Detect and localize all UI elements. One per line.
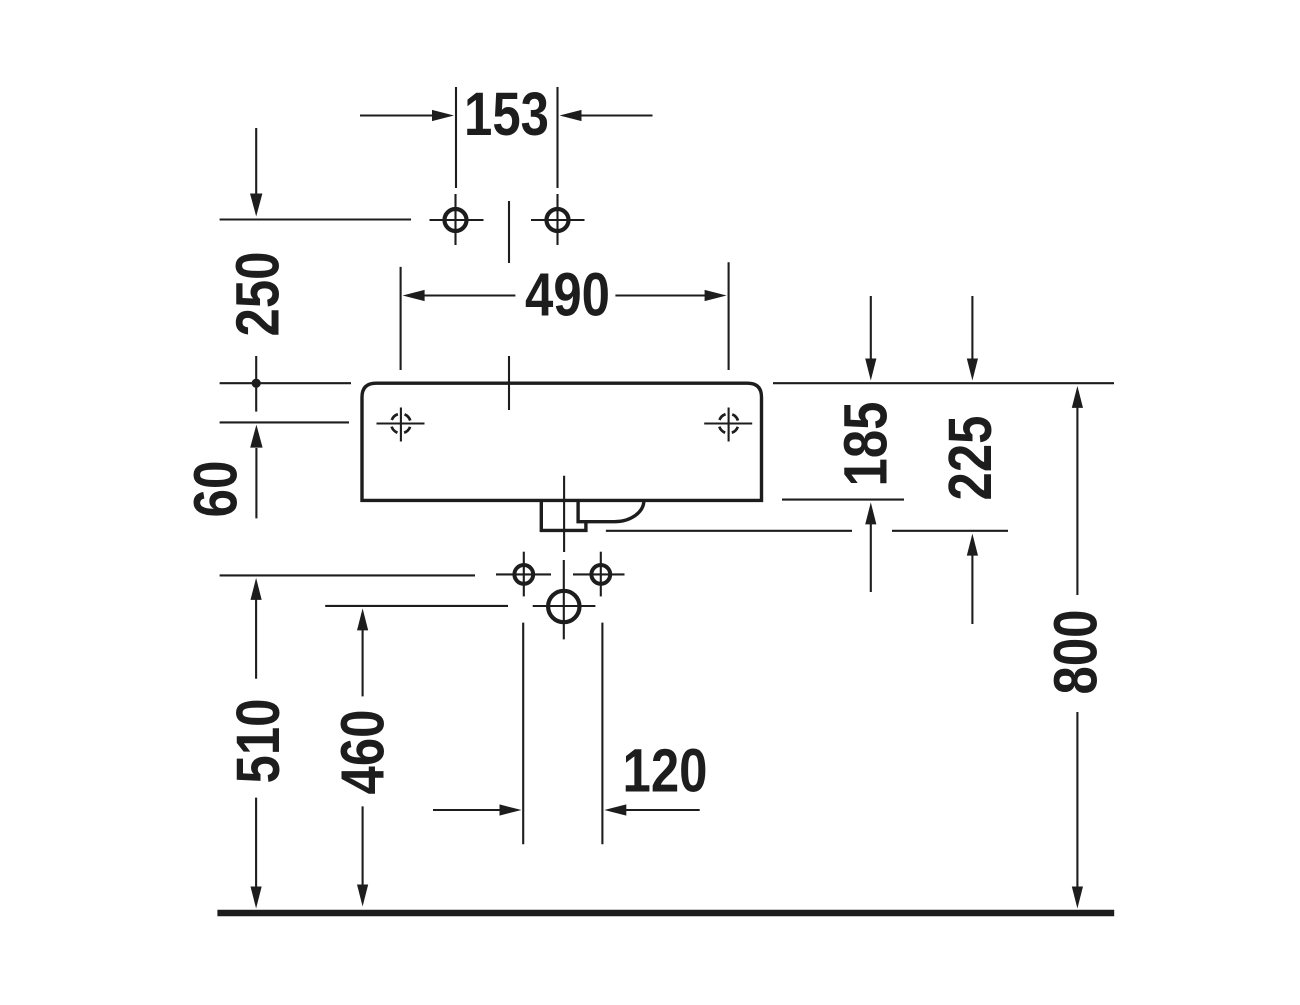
dimension 185 lower arrow [865, 502, 876, 524]
drain bottom level extension line to right (segment 2) [892, 530, 1008, 532]
drain pipe level line to left (460 ref) [325, 605, 508, 607]
supply hole left circle [514, 565, 533, 584]
mounting hole left crosshair [377, 422, 425, 424]
dimension 153 extension line right [556, 87, 558, 188]
dimension 153 arrow right [578, 114, 653, 116]
faucet hole reference line to left [220, 218, 411, 220]
washbasin body outline [362, 383, 762, 500]
mounting hole level extension line to left [220, 421, 349, 423]
mounting hole right (dashed) [719, 414, 739, 434]
dimension 490 arrow left [403, 290, 425, 301]
drain outlet stub [541, 500, 586, 530]
basin bottom level extension line to right [782, 499, 904, 501]
dimension 460 upper arrow [357, 608, 368, 630]
dimension 120 arrow right [604, 804, 626, 815]
faucet hole right circle [547, 209, 569, 231]
dimension 120 arrow left [433, 809, 502, 811]
svg-text:800: 800 [1041, 610, 1109, 695]
supply hole left crosshair [496, 573, 551, 575]
svg-text:490: 490 [525, 261, 610, 329]
mounting hole right crosshair [704, 422, 752, 424]
drain bottom level extension line to right (segment 1) [606, 530, 852, 532]
faucet hole left crosshair [430, 219, 484, 221]
dimension 60 up arrow [250, 425, 262, 448]
svg-text:120: 120 [623, 737, 708, 805]
svg-text:185: 185 [831, 402, 899, 487]
dimension 800 lower shaft and arrow [1076, 712, 1078, 888]
supply hole level line to left (510 ref) [220, 574, 475, 576]
dimension 153 arrow left [360, 114, 435, 116]
dimension 250 lower shaft with dot terminator [255, 356, 257, 412]
svg-text:510: 510 [224, 699, 292, 784]
drain trap profile with curve [578, 500, 644, 521]
svg-text:250: 250 [223, 252, 291, 337]
centerline between faucet holes [508, 201, 510, 263]
drain pipe circle crosshair [533, 605, 596, 607]
basin vertical centerline [508, 356, 510, 410]
dimension 490 extension line right [728, 262, 730, 370]
dimension 800 upper arrow [1072, 386, 1083, 408]
dimension 225 upper arrow [971, 296, 973, 360]
dimension 120 extension line right [601, 623, 603, 845]
dot terminator at basin top level [252, 379, 261, 388]
down arrow above faucet line (250 dim top) [255, 128, 257, 196]
supply hole right circle [591, 565, 610, 584]
svg-text:460: 460 [329, 710, 397, 795]
dimension 510 lower shaft and arrow [255, 798, 257, 888]
dimension 510 upper arrow [251, 578, 262, 600]
drain pipe circle [548, 591, 579, 622]
faucet hole right crosshair [531, 219, 585, 221]
svg-text:60: 60 [182, 461, 250, 518]
supply hole right crosshair [573, 573, 625, 575]
dimension 225 lower arrow [967, 534, 978, 556]
floor line [217, 910, 1114, 917]
svg-text:225: 225 [936, 416, 1004, 501]
dimension 460 lower shaft and arrow [362, 806, 364, 886]
dimension 490 extension line left [400, 267, 402, 370]
dimension 120 extension line left [522, 623, 524, 845]
basin top level extension line to right [773, 382, 1114, 384]
mounting hole left (dashed) [391, 414, 411, 434]
drain centerline [563, 476, 565, 552]
basin top level extension line to left [220, 382, 351, 384]
svg-text:153: 153 [464, 80, 549, 148]
faucet hole left circle [445, 209, 467, 231]
dimension 490 arrow right [615, 294, 706, 296]
dimension 153 extension line left [455, 87, 457, 188]
dimension 185 upper arrow [870, 296, 872, 360]
